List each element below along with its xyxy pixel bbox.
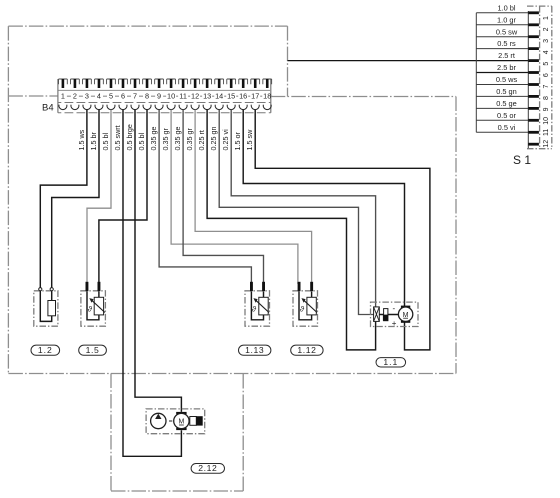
component box 1.12 xyxy=(293,291,318,326)
svg-text:1: 1 xyxy=(61,91,65,100)
B4 socket contact 5 xyxy=(107,105,115,110)
svg-text:1.5 sw: 1.5 sw xyxy=(245,129,254,151)
svg-text:0.35 ge: 0.35 ge xyxy=(173,127,182,151)
wire B4 pin 7 (0.5 brge) to 2.12 motor + xyxy=(125,110,182,412)
svg-text:2: 2 xyxy=(543,27,550,31)
svg-text:0.5 gn: 0.5 gn xyxy=(496,87,517,96)
svg-text:ϑ: ϑ xyxy=(252,305,257,314)
unit boundary frame (dash-dot) xyxy=(8,26,456,373)
wire 1.0 gr S1 pin 2 xyxy=(476,24,528,26)
B4 row divider xyxy=(58,102,271,104)
wire 1.0 bl S1 pin 1 xyxy=(476,12,528,14)
svg-text:1.5 ws: 1.5 ws xyxy=(77,129,86,150)
svg-text:0.5 bl: 0.5 bl xyxy=(137,133,146,151)
svg-text:4: 4 xyxy=(543,50,550,54)
component label oval 2.12 xyxy=(191,463,224,473)
wire B4 pin 5 (0.5 bl) to 1.5 term 1 xyxy=(87,110,111,284)
svg-text:0.25 rt: 0.25 rt xyxy=(197,130,206,150)
motor M of 1.1 xyxy=(398,306,412,323)
svg-text:1.1: 1.1 xyxy=(383,357,398,367)
S1 wire-list left edge xyxy=(475,13,477,133)
svg-text:ϑ: ϑ xyxy=(300,305,305,314)
svg-text:10: 10 xyxy=(543,117,550,125)
svg-text:3: 3 xyxy=(85,91,89,100)
svg-text:6: 6 xyxy=(543,73,550,77)
component box 2.12 xyxy=(146,409,205,434)
svg-text:0.5 rs: 0.5 rs xyxy=(497,39,516,48)
svg-text:0.5 sw: 0.5 sw xyxy=(496,27,518,36)
component label oval 1.2 xyxy=(31,345,60,355)
temperature sensor 1.13 (NTC) xyxy=(250,282,269,320)
S1 pin contact 8 xyxy=(528,95,539,98)
B4 pin 14 blade xyxy=(218,79,221,88)
svg-text:10: 10 xyxy=(167,91,175,100)
svg-text:5: 5 xyxy=(109,91,113,100)
component label oval 1.12 xyxy=(291,345,323,355)
svg-text:0.35 gr: 0.35 gr xyxy=(185,128,194,151)
wire B4 pin 13 (0.25 rt) to 1.1 valve bottom xyxy=(197,110,376,350)
svg-text:6: 6 xyxy=(121,91,125,100)
svg-text:1.5: 1.5 xyxy=(86,345,100,355)
wire B4 pin 15 (0.25 vi) to 1.1 valve top xyxy=(221,110,376,307)
wire B4 pin 9 (0.35 ge) to 1.13 term 1 xyxy=(149,110,251,284)
B4 socket contact 1 xyxy=(59,105,67,110)
wire B4 pin 10 (0.35 gr) to 1.12 term 1 xyxy=(161,110,298,284)
B4 pin 2 blade xyxy=(74,79,77,88)
B4 pin 8 blade xyxy=(146,79,149,88)
B4 socket contact 4 xyxy=(95,105,103,110)
S1 pin contact 3 xyxy=(528,35,539,38)
B4 socket contact 9 xyxy=(155,105,163,110)
svg-text:0.5 ge: 0.5 ge xyxy=(496,99,517,108)
svg-text:14: 14 xyxy=(215,91,223,100)
B4 pin 16 blade xyxy=(242,79,245,88)
svg-text:11: 11 xyxy=(543,129,550,136)
component label oval 1.5 xyxy=(79,345,107,355)
svg-text:B4: B4 xyxy=(42,102,54,113)
wire B4 pin 17 (1.5 sw) to 1.1 motor bottom xyxy=(245,110,430,350)
svg-text:1.0 gr: 1.0 gr xyxy=(497,15,516,24)
svg-text:11: 11 xyxy=(179,91,187,100)
B4 pin 15 blade xyxy=(230,79,233,88)
svg-text:1.5 br: 1.5 br xyxy=(89,132,98,151)
svg-text:0.25 vi: 0.25 vi xyxy=(221,129,230,151)
wire B4 pin 12 (0.35 gr) to 1.12 term 2 xyxy=(185,110,312,284)
component box 1.2 xyxy=(34,291,58,326)
B4 pin 10 blade xyxy=(170,79,173,88)
svg-text:18: 18 xyxy=(263,91,271,100)
svg-text:1.12: 1.12 xyxy=(297,345,316,355)
svg-text:7: 7 xyxy=(133,91,137,100)
B4 socket contact 6 xyxy=(119,105,127,110)
wire 0.5 gn S1 pin 8 xyxy=(476,95,528,97)
svg-text:2.5 rt: 2.5 rt xyxy=(498,51,515,60)
svg-text:0.25 gn: 0.25 gn xyxy=(209,127,218,151)
B4 housing outline xyxy=(58,79,271,113)
polarity marks of 1.1 xyxy=(392,304,397,328)
svg-text:5: 5 xyxy=(543,62,550,66)
S1 pin contact 4 xyxy=(528,47,539,50)
wire 0.5 rs S1 pin 4 xyxy=(476,48,528,50)
svg-text:1.0 bl: 1.0 bl xyxy=(497,3,515,12)
wire 0.5 sw S1 pin 3 xyxy=(476,36,528,38)
S1 pin contact 9 xyxy=(528,107,539,110)
B4 pin 1 blade xyxy=(62,79,65,88)
B4 socket contact 16 xyxy=(239,105,247,110)
svg-text:0.5 ws: 0.5 ws xyxy=(496,75,518,84)
S1 pin contact 11 xyxy=(528,131,539,134)
svg-text:9: 9 xyxy=(157,91,161,100)
B4 socket contact 18 xyxy=(263,105,271,110)
solenoid valve element of 1.1 xyxy=(374,307,380,322)
S1 pin contact 5 xyxy=(528,59,539,62)
B4 pin 4 blade xyxy=(98,79,101,88)
temperature sensor 1.5 (NTC) xyxy=(86,282,105,320)
component label oval 1.13 xyxy=(239,345,271,355)
svg-text:0.5 vi: 0.5 vi xyxy=(498,123,516,132)
B4 pin 7 blade xyxy=(134,79,137,88)
component label oval 1.1 xyxy=(376,357,406,367)
motor M of 2.12 xyxy=(174,412,189,430)
wire 0.5 or S1 pin 10 xyxy=(476,119,528,121)
component box 1.13 xyxy=(245,291,270,326)
wire 0.5 ge S1 pin 9 xyxy=(476,107,528,109)
component 2.12 outer boundary box xyxy=(111,374,243,492)
svg-text:9: 9 xyxy=(543,107,550,111)
S1 pin contact 7 xyxy=(528,83,539,86)
B4 pin 11 blade xyxy=(182,79,185,88)
svg-text:8: 8 xyxy=(145,91,149,100)
resistor R 1.2 xyxy=(39,288,56,322)
wire B4 pin 14 (0.25 gn) to 1.1 valve input xyxy=(209,110,374,315)
svg-text:1.13: 1.13 xyxy=(245,345,264,355)
svg-text:1.5 or: 1.5 or xyxy=(233,132,242,151)
B4 inner divider xyxy=(59,89,271,91)
wire B4 pin 16 (1.5 or) to 1.1 motor top xyxy=(233,110,404,307)
wire B4 pin 11 (0.35 ge) to 1.13 term 2 xyxy=(173,110,264,284)
wire 0.5 vi S1 pin 11 xyxy=(476,131,528,133)
wire B4 pin 8 (0.5 bl) to 1.5 term 2 xyxy=(99,110,147,284)
svg-text:0.5 bl: 0.5 bl xyxy=(101,133,110,151)
B4 socket contact 8 xyxy=(143,105,151,110)
svg-text:4: 4 xyxy=(97,91,101,100)
wire B4 pin 4 (1.5 br) to 1.2 term 2 xyxy=(52,110,99,288)
coupling link of 2.12 xyxy=(169,420,172,422)
B4 socket contact 3 xyxy=(83,105,91,110)
svg-text:0.5 swrt: 0.5 swrt xyxy=(113,125,122,150)
B4 socket contact 2 xyxy=(71,105,79,110)
svg-text:2: 2 xyxy=(73,91,77,100)
svg-text:2.5 br: 2.5 br xyxy=(497,63,516,72)
B4 socket contact 13 xyxy=(203,105,211,110)
B4 pin 13 blade xyxy=(206,79,209,88)
svg-text:16: 16 xyxy=(239,91,247,100)
B4 pin 18 blade xyxy=(266,79,269,88)
connector lug of 2.12 xyxy=(190,416,203,425)
wire 0.5 ws S1 pin 7 xyxy=(476,84,528,86)
S1 pin contact 1 xyxy=(528,11,539,14)
svg-text:2.12: 2.12 xyxy=(198,463,217,473)
B4 socket contact 10 xyxy=(167,105,175,110)
feedback sensor element of 1.1 xyxy=(383,309,388,321)
svg-text:8: 8 xyxy=(543,96,550,100)
svg-text:+: + xyxy=(392,319,397,328)
svg-text:0.35 ge: 0.35 ge xyxy=(149,127,158,151)
svg-text:-: - xyxy=(393,304,396,313)
B4 socket contact 17 xyxy=(251,105,259,110)
S1 pin contact 10 xyxy=(528,119,539,122)
B4 pin 12 blade xyxy=(194,79,197,88)
svg-text:S 1: S 1 xyxy=(513,153,531,167)
B4 pin 9 blade xyxy=(158,79,161,88)
B4 pin 6 blade xyxy=(122,79,125,88)
svg-text:13: 13 xyxy=(203,91,211,100)
wire 2.5 br S1 pin 6 xyxy=(476,72,528,74)
B4 housing bottom edge xyxy=(58,112,271,114)
wire B4 pin 3 (1.5 ws) to 1.2 term 1 xyxy=(40,110,87,288)
svg-text:12: 12 xyxy=(543,140,550,148)
svg-text:0.5 or: 0.5 or xyxy=(497,111,516,120)
connector S1 wire list xyxy=(288,3,552,167)
temperature sensor 1.12 (NTC) xyxy=(298,282,317,320)
boundary dash-dot through B4 pin-number row xyxy=(67,95,272,97)
S1 strip body xyxy=(527,11,529,149)
component box 1.5 xyxy=(81,291,106,326)
svg-text:0.35 gr: 0.35 gr xyxy=(161,128,170,151)
B4 socket contact 7 xyxy=(131,105,139,110)
S1 pin contact 12 xyxy=(528,143,539,146)
B4 socket contact 11 xyxy=(179,105,187,110)
component box 1.1 xyxy=(371,302,419,326)
svg-text:15: 15 xyxy=(227,91,235,100)
svg-text:12: 12 xyxy=(191,91,199,100)
internal links of 1.1 xyxy=(379,314,398,316)
S1 pin contact 2 xyxy=(528,23,539,26)
svg-text:17: 17 xyxy=(251,91,259,100)
wire 2.5 rt from boundary to S1 pin 5 xyxy=(288,60,529,62)
svg-text:ϑ: ϑ xyxy=(88,305,93,314)
B4 pin 5 blade xyxy=(110,79,113,88)
B4 socket contact 15 xyxy=(227,105,235,110)
B4 mating-side teeth top edge xyxy=(59,78,272,80)
B4 socket contact 12 xyxy=(191,105,199,110)
B4 socket contact 14 xyxy=(215,105,223,110)
B4 pin 3 blade xyxy=(86,79,89,88)
connector B4 xyxy=(42,79,272,113)
svg-text:7: 7 xyxy=(543,85,550,89)
svg-text:0.5 brge: 0.5 brge xyxy=(125,124,134,150)
svg-text:3: 3 xyxy=(543,39,550,43)
S1 pin contact 6 xyxy=(528,71,539,74)
svg-text:1.2: 1.2 xyxy=(38,345,53,355)
pump element of 2.12 xyxy=(151,413,166,428)
B4 pin 17 blade xyxy=(254,79,257,88)
wire B4 pin 6 (0.5 swrt) to 2.12 motor - xyxy=(113,110,181,457)
svg-text:1: 1 xyxy=(543,16,550,20)
